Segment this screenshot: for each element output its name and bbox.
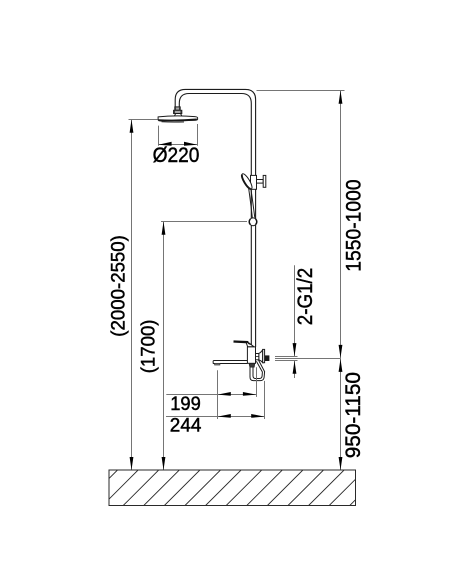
ext line top of head (left dim) <box>129 119 158 121</box>
floor outline <box>109 470 356 506</box>
body aerator <box>249 364 255 368</box>
arrow up 2-G1/2 <box>293 361 297 374</box>
arrow left o220 <box>158 142 171 146</box>
ext line pipe top right <box>257 90 345 92</box>
dim line 1700 <box>163 222 165 471</box>
shower head disc <box>158 116 198 122</box>
ext line o220 left <box>158 126 160 146</box>
arrow up 1700 <box>162 222 166 235</box>
shower head ball joint <box>174 114 182 117</box>
ext line spout tip <box>217 370 219 419</box>
shower head connector nut upper <box>174 107 182 114</box>
svg-text:Ø220: Ø220 <box>153 144 200 167</box>
svg-text:(2000-2550): (2000-2550) <box>109 235 130 337</box>
arrow up 2000-2550 <box>130 120 134 133</box>
floor hatch <box>61 470 385 506</box>
ext line o220 right <box>197 124 199 146</box>
G1/2 double line top <box>275 356 298 358</box>
hand shower head <box>240 173 254 191</box>
hand shower handle <box>248 187 252 218</box>
arrows <box>130 91 343 471</box>
arrow right o220 <box>184 142 197 146</box>
slider rod <box>257 180 264 184</box>
G1/2 middle line to right dim <box>275 358 341 360</box>
spout <box>213 361 247 364</box>
hose hook inner <box>253 361 262 378</box>
arrow down 950-1150 <box>339 457 343 470</box>
mixer lever neck <box>246 343 254 347</box>
svg-text:1550-1000: 1550-1000 <box>343 179 366 271</box>
ext line 199 right <box>256 367 258 397</box>
dim line 1550-1000 <box>340 91 342 359</box>
arrow up 950-1150 <box>339 359 343 372</box>
ext line 244 right <box>264 381 266 419</box>
dim line 2000-2550 <box>131 120 133 471</box>
dim line 950-1150 <box>340 358 342 470</box>
knob bell <box>259 350 263 363</box>
knob rim <box>263 349 265 362</box>
wire gooseneck arm outer <box>175 89 255 347</box>
dim line 199 <box>166 394 256 396</box>
hose hook outer <box>250 360 265 381</box>
arrow down 1550-1000 <box>339 345 343 358</box>
arrow down 2000-2550 <box>130 457 134 470</box>
svg-text:244: 244 <box>170 416 202 437</box>
mixer lever grip <box>234 340 249 343</box>
slider end cap <box>263 175 266 187</box>
dim line 244 <box>166 416 265 418</box>
mixer body <box>247 347 255 363</box>
arrow up 1550-1000 <box>339 91 343 104</box>
wire gooseneck arm inner <box>179 94 251 347</box>
knob nut <box>265 356 269 361</box>
dim line o220 <box>159 144 198 146</box>
svg-text:950-1150: 950-1150 <box>342 372 365 458</box>
svg-text:(1700): (1700) <box>139 320 160 374</box>
arrow down 2-G1/2 <box>293 343 297 356</box>
knob neck <box>256 354 259 360</box>
dim line 2-G1/2 lower tail <box>294 361 296 378</box>
svg-text:2-G1/2: 2-G1/2 <box>294 268 317 325</box>
svg-text:199: 199 <box>170 394 201 415</box>
arrow right 244 <box>251 414 264 418</box>
ext line node (1700) <box>161 221 247 223</box>
dim line 2-G1/2 upper <box>294 265 296 356</box>
shower head connector nut lower <box>174 110 182 113</box>
spout aerator nub <box>215 363 220 365</box>
node connector on pipe <box>249 218 257 226</box>
arrow right 199 <box>243 392 256 396</box>
arrow left 244 <box>218 414 231 418</box>
hand shower slider block <box>251 175 257 189</box>
arrow left 199 <box>218 392 231 396</box>
G1/2 double line bottom <box>275 360 298 362</box>
arrow down 1700 <box>162 457 166 470</box>
